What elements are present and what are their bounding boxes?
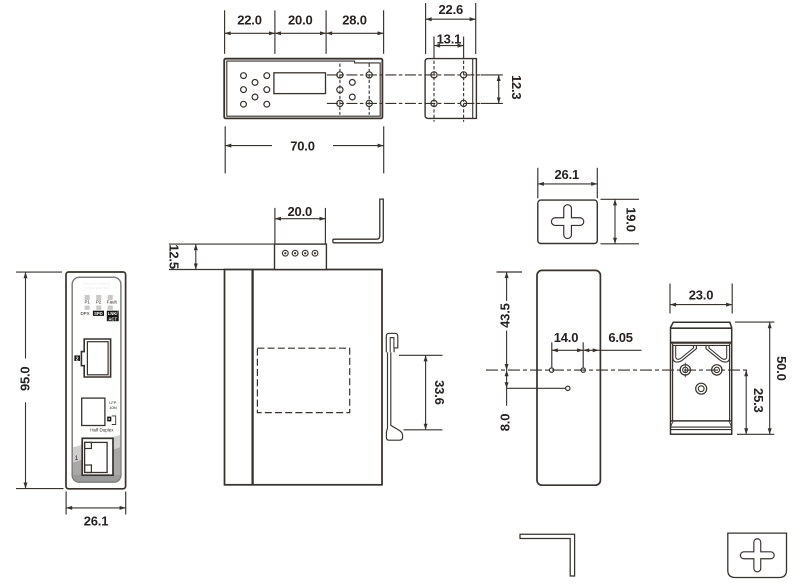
terminal screw 2 bbox=[292, 250, 298, 256]
screw hole center bbox=[696, 383, 707, 394]
hole centerline vertical 1 bbox=[433, 55, 435, 122]
dimension 22.6 line bbox=[426, 18, 476, 20]
extension line a bbox=[224, 10, 226, 54]
screw hole right bbox=[712, 365, 722, 375]
svg-text:50.0: 50.0 bbox=[774, 356, 789, 381]
svg-text:26.1: 26.1 bbox=[555, 167, 580, 182]
vent hole A1 bbox=[241, 73, 247, 79]
dimension 23.0 line bbox=[670, 304, 732, 306]
mount hole 4 bbox=[461, 100, 467, 106]
extension line 26.1 right bbox=[596, 168, 598, 199]
extension line 95 top bbox=[16, 271, 62, 273]
display window cutout bbox=[274, 73, 326, 94]
device outline bbox=[66, 272, 126, 489]
svg-text:LNK/: LNK/ bbox=[108, 311, 119, 316]
dimension 6.05 tail bbox=[599, 349, 642, 351]
dimension 12.5 line bbox=[195, 244, 197, 269]
lower screw hole bbox=[566, 386, 570, 390]
extension line 23 right bbox=[731, 284, 733, 314]
svg-text:20.0: 20.0 bbox=[288, 12, 313, 27]
rail lower edge thick line bbox=[671, 342, 732, 344]
dimension 43.5 line upper bbox=[506, 272, 508, 301]
hole centerline vertical 2 bbox=[368, 64, 370, 115]
fiber port square bbox=[82, 398, 105, 425]
dimension 50.0 line bbox=[769, 322, 771, 434]
extension line 43.5 top bbox=[497, 271, 523, 273]
hole centerline vertical 1 bbox=[339, 64, 341, 115]
extension line 22.6 left bbox=[425, 3, 427, 54]
svg-text:DPX: DPX bbox=[80, 311, 89, 316]
svg-text:P2: P2 bbox=[96, 300, 102, 305]
port 1 inner opening bbox=[85, 442, 108, 472]
cross cutout bbox=[551, 205, 583, 239]
mount hole 3 bbox=[431, 100, 437, 106]
dimension 26.1 line bbox=[66, 507, 126, 509]
front panel bezel bbox=[72, 277, 121, 482]
front panel shading bbox=[72, 435, 121, 482]
spring top line bbox=[673, 344, 730, 346]
svg-text:23.0: 23.0 bbox=[689, 287, 714, 302]
screw hole D2 bbox=[337, 87, 343, 93]
extension line 13.1 left bbox=[433, 37, 435, 58]
svg-text:CONVERTER: CONVERTER bbox=[85, 287, 110, 291]
inner wall left bbox=[672, 344, 674, 421]
svg-text:26.1: 26.1 bbox=[84, 513, 109, 528]
svg-text:2: 2 bbox=[76, 356, 79, 362]
dimension 20.0 line bbox=[275, 218, 326, 220]
din clip hook profile bbox=[386, 333, 398, 352]
hidden opening dashed rect bbox=[257, 348, 349, 412]
svg-text:43.5: 43.5 bbox=[498, 303, 513, 328]
bottom lip top line bbox=[671, 420, 732, 422]
vent hole A3 bbox=[241, 101, 247, 107]
bottom lip chamfer left bbox=[671, 421, 674, 427]
vent hole C1 bbox=[264, 73, 270, 79]
extension line 33.6 top bbox=[399, 354, 443, 356]
svg-text:Fault: Fault bbox=[107, 300, 118, 305]
extension line 23 left bbox=[669, 284, 671, 314]
terminal block bbox=[275, 244, 327, 269]
port 2 socket outline bbox=[81, 339, 110, 377]
left spring hook outer bbox=[673, 346, 697, 362]
screw hole E2 bbox=[366, 100, 372, 106]
dimension 70.0 line left bbox=[225, 145, 272, 147]
front panel edge line bbox=[251, 270, 253, 485]
hole centerline vertical 2 bbox=[463, 55, 465, 122]
svg-text:28.0: 28.0 bbox=[342, 12, 367, 27]
cross plate outline bbox=[538, 200, 598, 243]
extension line 22.6 right bbox=[475, 3, 477, 54]
dimension 20.0 line bbox=[275, 32, 326, 34]
extension line 14 left bbox=[551, 342, 553, 367]
mount hole 1 bbox=[431, 72, 437, 78]
extension line 26.1 right bbox=[125, 492, 127, 515]
dimension 19.0 line bbox=[614, 199, 616, 244]
svg-text:10M: 10M bbox=[109, 405, 117, 410]
wall mount bracket profile bbox=[333, 199, 383, 243]
dimension 95.0 line upper bbox=[25, 272, 27, 358]
vent hole B2 bbox=[252, 94, 258, 100]
left spring hook inner bbox=[676, 346, 694, 359]
vent hole B1 bbox=[252, 80, 258, 86]
extension line 19 top bbox=[601, 198, 640, 200]
dimension 43.5 line lower bbox=[506, 331, 508, 371]
inner wall right bbox=[729, 344, 731, 421]
svg-text:P1: P1 bbox=[85, 300, 91, 305]
svg-text:LFP: LFP bbox=[109, 400, 117, 405]
bottom lip line 3 bbox=[671, 429, 732, 431]
svg-text:95.0: 95.0 bbox=[18, 367, 33, 392]
svg-text:33.6: 33.6 bbox=[432, 380, 447, 405]
dimension 25.3 line bbox=[745, 370, 747, 434]
dimension 26.1 line bbox=[538, 183, 598, 185]
bottom lip chamfer right bbox=[729, 421, 732, 427]
extension line 70 left bbox=[224, 126, 226, 173]
LED P2 bbox=[96, 295, 101, 300]
extension line 26.1 left bbox=[537, 168, 539, 199]
keyhole slot right bbox=[581, 368, 585, 372]
screw hole left centermark bbox=[684, 363, 686, 378]
din adapter outline with chamfered top bbox=[671, 322, 732, 434]
cross plate outline bbox=[728, 533, 787, 577]
svg-text:20.0: 20.0 bbox=[288, 204, 313, 219]
extension line b bbox=[274, 10, 276, 54]
svg-text:12.5: 12.5 bbox=[167, 244, 182, 269]
terminal screw 4 bbox=[312, 250, 318, 256]
port 1 latch notch bottom bbox=[85, 465, 92, 473]
extension line 26.1 left bbox=[65, 492, 67, 515]
screw hole E1 bbox=[366, 72, 372, 78]
horizontal centerline dash-dot bbox=[486, 369, 748, 371]
screw hole left bbox=[680, 365, 690, 375]
svg-text:1: 1 bbox=[75, 455, 79, 462]
extension line 20 right bbox=[324, 208, 326, 244]
bracket plate outline bbox=[425, 59, 476, 119]
dip switch icon bbox=[107, 417, 111, 422]
extension line 33.6 bottom bbox=[404, 429, 443, 431]
svg-text:Half Duplex: Half Duplex bbox=[90, 428, 114, 433]
top rail edge thick line bbox=[671, 327, 732, 329]
extension line 70 right bbox=[383, 126, 385, 173]
screw hole D3 bbox=[337, 100, 343, 106]
svg-text:ACT: ACT bbox=[108, 316, 117, 321]
right spring hook outer bbox=[706, 346, 730, 362]
dimension 8.0 tail bbox=[506, 388, 508, 406]
dimension 6.05 line bbox=[583, 349, 599, 351]
hole centerline horizontal row 1 bbox=[327, 74, 480, 76]
top cover outline bbox=[224, 59, 382, 119]
dimension 28.0 line bbox=[326, 32, 384, 34]
LED Fault bbox=[108, 295, 113, 300]
extension line 20 left bbox=[274, 208, 276, 244]
extension line 50 top bbox=[735, 321, 774, 323]
dimension 70.0 line right bbox=[333, 145, 384, 147]
dimension 33.6 line bbox=[425, 355, 427, 430]
lower hole leader line bbox=[507, 387, 566, 389]
extension line d bbox=[383, 10, 385, 54]
extension line 13.1 right bbox=[463, 37, 465, 58]
right spring hook inner bbox=[709, 346, 727, 359]
svg-text:10/100 MBPS: 10/100 MBPS bbox=[83, 282, 111, 286]
svg-text:6.05: 6.05 bbox=[608, 330, 633, 345]
extension line 12.3 bottom bbox=[481, 102, 503, 104]
vent hole A2 bbox=[241, 87, 247, 93]
svg-text:22.0: 22.0 bbox=[237, 12, 262, 27]
svg-text:25.3: 25.3 bbox=[751, 388, 766, 413]
svg-text:14.0: 14.0 bbox=[554, 330, 579, 345]
port 1 socket outline bbox=[82, 438, 113, 475]
cross cutout bbox=[740, 539, 774, 572]
extension line 12.5 top bbox=[169, 243, 275, 245]
din clip arm and foot profile bbox=[386, 352, 402, 440]
LED LNK bbox=[108, 306, 113, 310]
body outline bbox=[225, 270, 383, 485]
port 1 latch notch top bbox=[85, 442, 92, 448]
extension line 19 bottom bbox=[601, 243, 640, 245]
dimension 22.0 line bbox=[225, 32, 275, 34]
mount hole 2 bbox=[461, 72, 467, 78]
port 2 inner opening bbox=[87, 342, 108, 375]
svg-text:19.0: 19.0 bbox=[623, 207, 638, 232]
vent hole C2 bbox=[264, 87, 270, 93]
dimension 13.1 line bbox=[434, 45, 464, 47]
dimension 14.0 line bbox=[552, 349, 583, 351]
vent hole F2 bbox=[349, 94, 355, 100]
top cover inner edge with corner notch bbox=[227, 61, 380, 116]
din clip hook slot bbox=[390, 338, 394, 353]
extension line 14 right bbox=[582, 342, 584, 367]
keyhole slot left bbox=[549, 368, 553, 372]
LED DPX bbox=[85, 306, 90, 310]
dimension 8.0 line bbox=[506, 370, 508, 388]
LED P1 bbox=[85, 295, 90, 300]
svg-text:13.1: 13.1 bbox=[437, 31, 462, 46]
L bracket profile bbox=[520, 534, 575, 576]
extension line 12.5 bottom bbox=[169, 269, 225, 271]
svg-text:70.0: 70.0 bbox=[290, 138, 315, 153]
extension line 95 bottom bbox=[16, 488, 64, 490]
port 2 label bbox=[74, 355, 80, 361]
svg-text:12.3: 12.3 bbox=[509, 75, 524, 100]
terminal screw 1 bbox=[282, 250, 288, 256]
svg-text:8.0: 8.0 bbox=[498, 414, 513, 431]
svg-text:SPD: SPD bbox=[94, 311, 103, 316]
dimension 95.0 line lower bbox=[25, 402, 27, 488]
label LNK/ACT inverted bbox=[107, 311, 119, 322]
LED SPD bbox=[96, 306, 101, 310]
terminal screw 3 bbox=[302, 250, 308, 256]
svg-text:22.6: 22.6 bbox=[439, 2, 464, 17]
extension line 50 bottom bbox=[737, 433, 774, 435]
bracket bend inner line bbox=[472, 59, 474, 119]
extension line 12.3 top bbox=[481, 74, 503, 76]
bottom lip line 2 bbox=[671, 426, 732, 428]
back plate outline bbox=[537, 270, 600, 485]
vent hole F1 bbox=[349, 80, 355, 86]
screw hole D1 bbox=[337, 72, 343, 78]
extension line c bbox=[325, 10, 327, 54]
hole centerline horizontal row 2 bbox=[327, 102, 480, 104]
dimension 12.3 line bbox=[498, 75, 500, 104]
label SPD inverted bbox=[93, 311, 104, 316]
vent hole C3 bbox=[264, 101, 270, 107]
